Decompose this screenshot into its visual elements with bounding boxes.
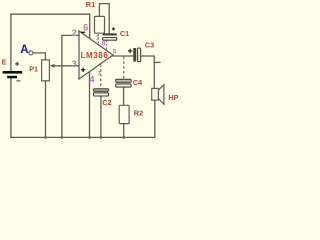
loudspeaker HP xyxy=(152,85,179,105)
pin 7 dashed lead xyxy=(100,64,102,88)
wire P1 wiper to pin 3 xyxy=(53,65,79,67)
resistor R1 xyxy=(86,0,105,33)
svg-text:C2: C2 xyxy=(102,98,111,107)
op-amp plus input sign xyxy=(81,68,85,72)
wire pin 2 to ground xyxy=(62,35,79,137)
wire C4 to R2 xyxy=(123,87,125,105)
battery E xyxy=(2,57,23,85)
svg-text:2: 2 xyxy=(72,28,77,38)
svg-text:E: E xyxy=(2,57,7,66)
pin 8 dashed lead xyxy=(106,40,108,50)
wire P1 bottom to bus xyxy=(45,81,47,138)
svg-text:C1: C1 xyxy=(120,29,129,38)
svg-text:C4: C4 xyxy=(133,78,143,87)
node junction dots on bus xyxy=(44,136,125,139)
wire speaker bottom to bus xyxy=(154,100,156,137)
wire R2 bottom to bus xyxy=(123,124,125,138)
resistor R2 xyxy=(119,105,143,123)
wire A terminal to P1 top xyxy=(33,53,45,60)
capacitor C1 xyxy=(103,27,130,40)
wire R1 C1 top bridge xyxy=(99,4,109,34)
svg-text:−: − xyxy=(16,77,21,86)
svg-text:LM386: LM386 xyxy=(81,51,109,60)
wire battery positive riser xyxy=(10,14,12,71)
svg-text:+: + xyxy=(15,60,20,69)
wire pin 6 drop xyxy=(89,14,91,38)
svg-text:C3: C3 xyxy=(145,40,154,49)
wire top rail xyxy=(11,13,90,15)
wire C4 dashed lead xyxy=(123,57,125,80)
capacitor C4 xyxy=(116,78,143,87)
wire pin 4 to bus xyxy=(89,72,91,137)
svg-text:3: 3 xyxy=(72,59,77,69)
svg-text:4: 4 xyxy=(90,74,95,84)
potentiometer P1 xyxy=(29,60,54,81)
svg-text:5: 5 xyxy=(113,49,117,56)
pin 1 dashed lead xyxy=(97,34,99,46)
node A input terminal xyxy=(20,44,33,56)
svg-text:HP: HP xyxy=(168,93,178,102)
svg-text:8: 8 xyxy=(102,40,106,47)
wire ground bus xyxy=(11,136,155,138)
capacitor C2 xyxy=(93,89,111,107)
wire battery negative to bus xyxy=(10,78,12,137)
op-amp minus input sign xyxy=(81,31,85,33)
wire C2 bottom to bus xyxy=(100,96,102,137)
capacitor C3 xyxy=(128,40,154,61)
wire C3 to speaker top xyxy=(141,56,155,88)
op-amp U1 LM386 triangle xyxy=(79,31,113,79)
wire speaker branch stub xyxy=(154,61,160,63)
svg-text:6: 6 xyxy=(83,23,88,33)
svg-text:P1: P1 xyxy=(29,64,38,73)
svg-text:R2: R2 xyxy=(134,108,143,117)
svg-text:A: A xyxy=(20,44,28,56)
svg-text:R1: R1 xyxy=(86,0,95,9)
wire output pin 5 to C3 xyxy=(113,55,133,57)
